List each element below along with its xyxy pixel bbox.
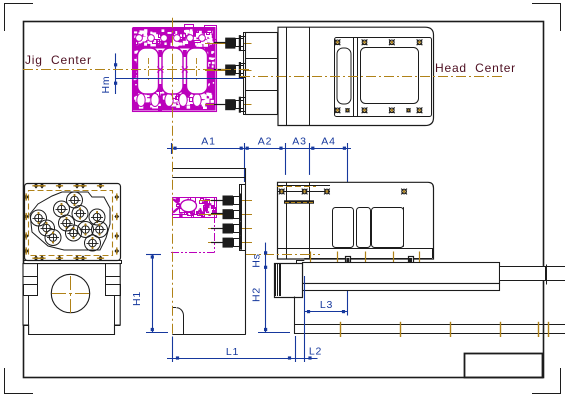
svg-text:A3: A3 [292, 136, 306, 148]
svg-text:A1: A1 [201, 136, 215, 148]
svg-text:L2: L2 [309, 346, 322, 358]
svg-text:A2: A2 [258, 136, 272, 148]
svg-text:Jig Center: Jig Center [25, 53, 92, 67]
svg-text:L1: L1 [226, 346, 239, 358]
svg-text:Hm: Hm [100, 76, 112, 94]
svg-text:Hs: Hs [251, 253, 263, 267]
svg-text:H1: H1 [131, 291, 143, 306]
svg-text:A4: A4 [321, 136, 335, 148]
svg-text:Head Center: Head Center [435, 61, 516, 75]
svg-text:L3: L3 [320, 299, 333, 311]
svg-text:H2: H2 [251, 287, 263, 302]
